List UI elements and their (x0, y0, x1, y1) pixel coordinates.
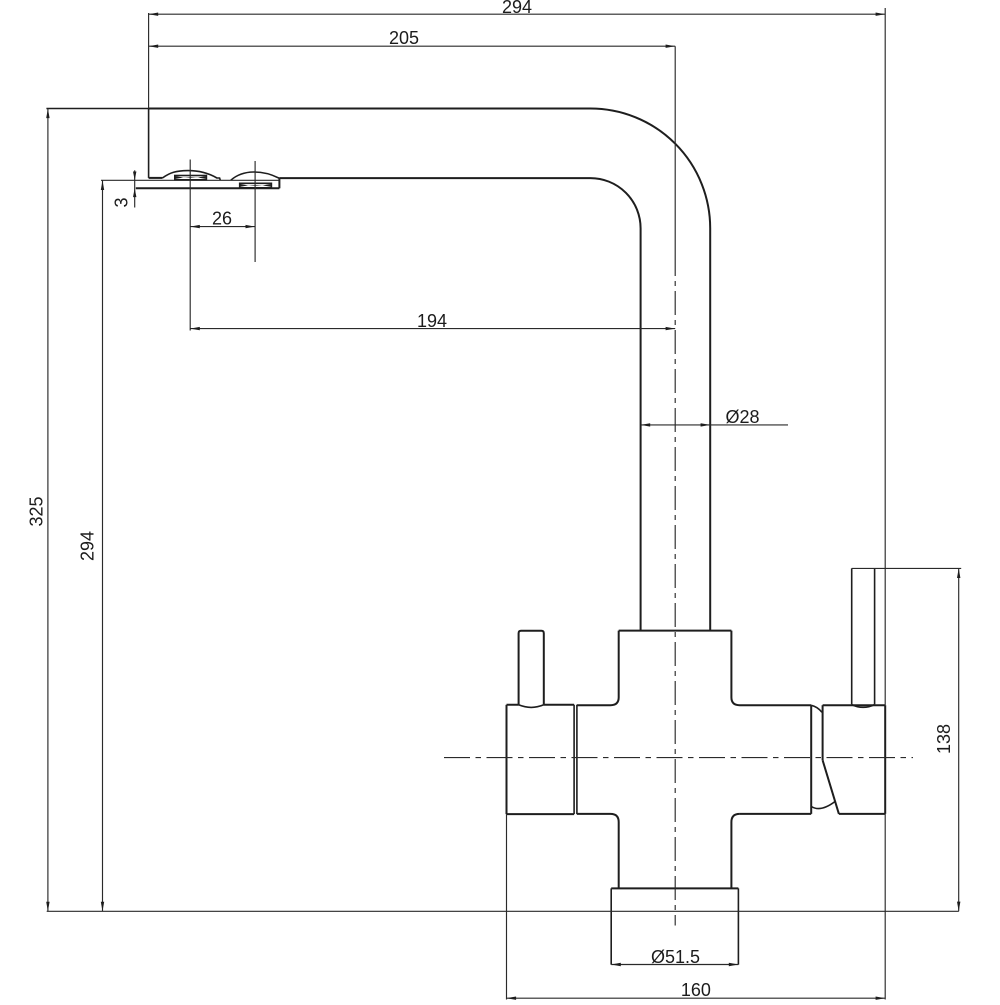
lever bottom seam arc (811, 802, 835, 809)
aerator plate top (101, 179, 279, 181)
aerator 2 centerline (254, 161, 256, 262)
base flange (611, 888, 738, 964)
right arm bottom edge (740, 813, 812, 815)
dimension 3 vertical at aerator plate (111, 170, 136, 207)
aerator plate bottom (136, 187, 280, 189)
extension line right block to 294/160 (884, 8, 886, 1000)
svg-text:160: 160 (681, 980, 711, 1000)
aerator slot 1 (175, 176, 207, 180)
svg-text:194: 194 (417, 311, 447, 331)
vertical centerline of riser pipe (674, 46, 676, 925)
left handle block (507, 705, 575, 814)
svg-text:294: 294 (502, 0, 532, 17)
body shoulder (619, 630, 732, 632)
dimension 325 vertical (27, 109, 50, 912)
right outlet pipe (852, 568, 875, 707)
dimension diameter 51.5 (611, 947, 738, 967)
svg-text:294: 294 (78, 531, 98, 561)
dimension 294 vertical (78, 180, 105, 911)
aerator 1 centerline (189, 160, 191, 331)
svg-text:3: 3 (111, 197, 131, 207)
body column left edge lower with fillet (577, 814, 619, 889)
countertop base line (47, 910, 959, 912)
aerator slot 2 (240, 183, 272, 188)
extension line left block to 160 (506, 814, 508, 999)
dimension 26 horizontal (190, 208, 255, 228)
right pipe top cap and 138 extension line (852, 567, 962, 569)
dimension 205 horizontal (149, 28, 676, 48)
aerator dome 2 (231, 172, 279, 180)
spout outer profile (149, 109, 711, 631)
extension line spout top to 325 (46, 108, 148, 110)
svg-text:26: 26 (212, 208, 232, 228)
svg-text:325: 325 (27, 496, 47, 526)
dimension diameter 28 leader (641, 407, 788, 427)
dimension 160 (507, 980, 886, 1000)
svg-text:Ø28: Ø28 (725, 407, 759, 427)
body column right edge lower with fillet (731, 814, 739, 889)
spout tip edge (149, 109, 163, 178)
spout inner profile (279, 178, 640, 630)
dimension 138 vertical (934, 568, 961, 911)
aerator plate right edge (278, 178, 280, 188)
horizontal centerline of body (444, 757, 913, 759)
svg-text:Ø51.5: Ø51.5 (651, 947, 700, 967)
svg-text:205: 205 (389, 28, 419, 48)
right arm end edge (810, 705, 812, 814)
dimension 294 horizontal (149, 0, 886, 17)
dimension 194 horizontal (190, 311, 675, 331)
right valve block (823, 705, 886, 814)
svg-text:138: 138 (934, 724, 954, 754)
body column left edge upper with fillet to left arm (577, 631, 619, 706)
right block top seam curve (811, 705, 822, 712)
extension line spout tip vertical to top dims (148, 13, 150, 109)
left block seam double line (574, 705, 577, 814)
lever diagonal (823, 760, 839, 814)
aerator dome 1 (163, 171, 221, 181)
left handle cylinder (519, 631, 544, 708)
body column right edge upper with fillet to right arm (731, 631, 811, 706)
